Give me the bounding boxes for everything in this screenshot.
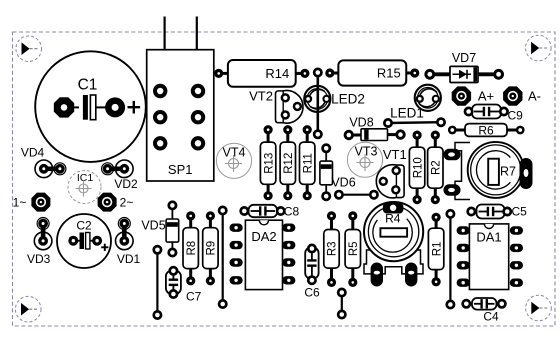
svg-text:VT2: VT2 — [249, 89, 273, 104]
svg-text:DA2: DA2 — [251, 229, 276, 244]
svg-text:R2: R2 — [431, 160, 443, 175]
svg-text:R7: R7 — [500, 165, 516, 179]
svg-text:VD3: VD3 — [27, 252, 51, 266]
svg-text:R11: R11 — [302, 153, 314, 173]
svg-text:R5: R5 — [348, 241, 360, 256]
svg-text:VD1: VD1 — [117, 252, 141, 266]
svg-text:R9: R9 — [206, 241, 218, 256]
svg-text:R15: R15 — [377, 66, 401, 81]
svg-text:VD4: VD4 — [21, 146, 45, 160]
svg-text:LED2: LED2 — [331, 91, 365, 106]
svg-text:DA1: DA1 — [476, 230, 501, 245]
svg-text:R14: R14 — [265, 66, 289, 81]
svg-text:C1: C1 — [78, 77, 98, 94]
svg-text:VD5: VD5 — [141, 219, 165, 233]
svg-text:SP1: SP1 — [168, 162, 193, 177]
svg-text:R12: R12 — [283, 153, 295, 174]
svg-text:R1: R1 — [431, 242, 443, 257]
svg-text:LED1: LED1 — [390, 106, 424, 121]
svg-text:1~: 1~ — [13, 196, 27, 210]
svg-text:C7: C7 — [186, 290, 202, 304]
svg-text:VT1: VT1 — [383, 147, 407, 162]
svg-text:R10: R10 — [412, 157, 424, 178]
svg-text:VT3: VT3 — [355, 145, 378, 159]
svg-text:A-: A- — [528, 89, 541, 104]
svg-text:R6: R6 — [478, 123, 494, 137]
svg-text:C2: C2 — [76, 219, 92, 233]
svg-text:2~: 2~ — [120, 196, 134, 210]
svg-text:R13: R13 — [263, 153, 275, 174]
svg-text:A+: A+ — [478, 89, 494, 104]
svg-text:VD2: VD2 — [114, 177, 138, 191]
svg-text:C8: C8 — [284, 205, 300, 219]
svg-text:C5: C5 — [512, 205, 528, 219]
svg-text:R4: R4 — [385, 212, 401, 226]
svg-text:IC1: IC1 — [77, 172, 94, 184]
svg-text:R3: R3 — [327, 241, 339, 256]
svg-text:VD7: VD7 — [452, 51, 476, 65]
svg-text:R8: R8 — [186, 241, 198, 256]
svg-text:VD6: VD6 — [331, 175, 355, 189]
svg-text:C6: C6 — [304, 286, 320, 300]
svg-text:VD8: VD8 — [349, 115, 373, 129]
svg-text:C9: C9 — [508, 109, 524, 123]
svg-text:C4: C4 — [483, 310, 499, 324]
